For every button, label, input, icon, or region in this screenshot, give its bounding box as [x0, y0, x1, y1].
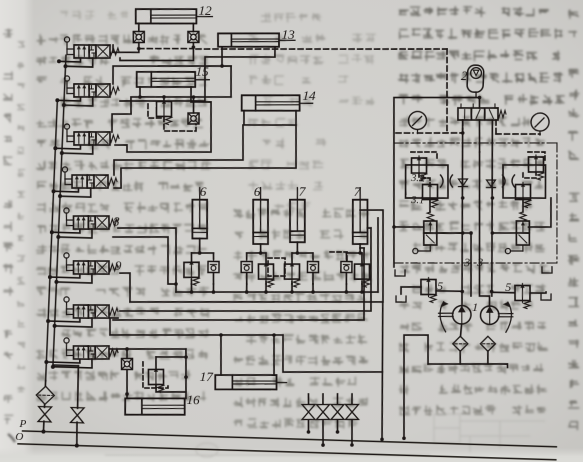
- filter: [36, 386, 55, 405]
- wire: [120, 221, 374, 319]
- relief valve (16): [148, 367, 165, 392]
- cylinder 16: [125, 397, 186, 417]
- shutoff valve: [70, 408, 84, 423]
- wire: [50, 273, 80, 278]
- wire: [487, 351, 488, 364]
- wire: [356, 209, 387, 302]
- shutoff valve: [38, 407, 52, 422]
- wire: [360, 247, 364, 249]
- filter 2: [480, 336, 496, 351]
- shutoff valve 3: [330, 404, 344, 420]
- wire: [112, 63, 231, 88]
- pump 1R: [480, 301, 514, 332]
- pilot line (dashed): [163, 117, 196, 132]
- wire: [193, 97, 194, 113]
- wire: [312, 253, 315, 259]
- wire: [322, 394, 325, 404]
- relief valve 3.2R: [528, 155, 545, 180]
- wire: [163, 97, 165, 102]
- wire: [221, 47, 223, 66]
- cylinder 15: [136, 70, 209, 89]
- wire: [156, 356, 186, 358]
- orifice R: [502, 175, 515, 188]
- wire: [351, 420, 353, 445]
- valve (accumulator charge): [457, 103, 506, 122]
- wire: [367, 227, 371, 229]
- pilot line (dashed): [495, 120, 496, 134]
- wire: [346, 252, 362, 255]
- relief valve 3.1R: [515, 182, 532, 207]
- wire: [375, 218, 381, 292]
- junction: [460, 290, 464, 294]
- wire: [120, 43, 275, 106]
- junction: [380, 437, 384, 441]
- svg-text:7: 7: [299, 184, 307, 199]
- wire: [345, 253, 348, 259]
- wire: [113, 42, 140, 53]
- relief valve 3.2: [411, 156, 428, 181]
- wire: [110, 330, 283, 340]
- wire: [120, 40, 194, 62]
- wire: [387, 95, 480, 269]
- cylinder 13: [217, 32, 295, 49]
- wire: [109, 318, 118, 335]
- wire: [59, 57, 81, 62]
- pilot line (dashed): [444, 49, 451, 133]
- pilot line (dashed): [411, 151, 438, 160]
- pilot line (dashed): [417, 132, 462, 135]
- wire: [291, 253, 294, 264]
- wire: [311, 272, 314, 284]
- wire: [212, 253, 215, 259]
- pilot check valve D: [121, 358, 133, 370]
- cylinder 6a: [191, 187, 209, 238]
- wire: [190, 253, 193, 262]
- wire: [190, 284, 193, 292]
- relief valve 6a: [183, 260, 200, 285]
- tank symbol: [396, 296, 406, 303]
- wire: [245, 284, 248, 292]
- wire: [57, 96, 80, 101]
- assembly border (chain line): [394, 138, 557, 148]
- wire: [54, 187, 79, 192]
- cylinder 7b: [351, 188, 370, 245]
- wire: [110, 347, 186, 351]
- cylinder 14 lower body: [243, 109, 296, 126]
- wire: [345, 272, 348, 284]
- cylinder 12: [135, 7, 213, 25]
- pilot line (dashed): [147, 104, 164, 118]
- svg-text:6: 6: [254, 184, 262, 199]
- pilot line (dashed): [419, 173, 431, 184]
- relief valve (15): [156, 99, 173, 124]
- check valve 6b: [241, 258, 253, 273]
- wire: [245, 273, 248, 285]
- wire: [48, 317, 80, 322]
- wire: [156, 385, 186, 393]
- wire: [176, 286, 378, 298]
- wire: [265, 284, 268, 292]
- P supply line: [23, 431, 557, 447]
- junction: [402, 436, 406, 440]
- svg-text:17: 17: [199, 369, 213, 384]
- svg-text:12: 12: [198, 3, 212, 18]
- check valve 7a: [307, 258, 319, 273]
- wire: [292, 252, 313, 253]
- wire: [113, 121, 244, 179]
- svg-text:P: P: [18, 418, 26, 430]
- wire: [345, 284, 348, 292]
- wire: [336, 394, 339, 404]
- wire: [437, 232, 463, 234]
- wire: [468, 233, 473, 296]
- cylinder 6b: [251, 187, 270, 244]
- wire: [199, 238, 200, 253]
- relief valve 6b: [258, 262, 275, 287]
- pilot line (dashed): [523, 173, 536, 179]
- relief valve 3.1: [422, 182, 439, 207]
- wire: [272, 335, 275, 375]
- svg-text:2: 2: [461, 69, 468, 83]
- wire: [337, 420, 338, 432]
- wire: [184, 349, 188, 398]
- wire: [192, 24, 195, 32]
- cylinder 17: [215, 373, 287, 391]
- valve V7: [63, 297, 118, 320]
- wire: [322, 420, 324, 445]
- suction manifold: [428, 362, 508, 368]
- O return line: [18, 444, 556, 460]
- wire: [361, 282, 363, 284]
- unloader valve L: [413, 212, 439, 255]
- valve V5 (8): [63, 208, 118, 231]
- filter 1: [452, 336, 468, 351]
- shutoff valve 4: [345, 404, 359, 420]
- wire: [436, 232, 471, 234]
- relief valve 5R: [514, 283, 531, 308]
- cylinder 7a: [288, 187, 307, 242]
- wire: [377, 302, 388, 439]
- wire: [308, 420, 309, 432]
- sub-circuit box: [502, 164, 547, 199]
- wire: [212, 284, 215, 292]
- pilot check valve B: [187, 31, 199, 43]
- wire: [281, 335, 383, 375]
- wire: [230, 66, 233, 97]
- wire: [291, 284, 294, 292]
- wire: [52, 228, 80, 233]
- cylinder 14: [241, 94, 313, 113]
- valve V2: [64, 76, 120, 99]
- wire: [119, 273, 131, 302]
- wire: [478, 120, 481, 152]
- relief valve 7a: [284, 262, 301, 287]
- bus line 1: [46, 101, 58, 381]
- wire: [155, 357, 156, 370]
- pilot line (dashed): [267, 258, 285, 277]
- wire: [400, 334, 430, 439]
- svg-text:O: O: [15, 431, 23, 443]
- wire: [126, 370, 128, 398]
- svg-text:3.1: 3.1: [410, 195, 425, 206]
- assembly border (chain line): [394, 258, 557, 268]
- wire: [115, 85, 214, 155]
- svg-text:13: 13: [281, 27, 295, 42]
- wire: [312, 284, 315, 292]
- orifice L: [440, 175, 453, 188]
- wire: [492, 291, 515, 294]
- relief valve 7b: [354, 262, 371, 287]
- wire: [126, 349, 129, 359]
- pilot line (dashed): [528, 151, 546, 160]
- wire: [529, 197, 553, 227]
- valve V6 (9): [63, 253, 118, 276]
- junction: [490, 290, 494, 294]
- wire: [130, 294, 383, 309]
- wire: [247, 252, 266, 253]
- wire: [361, 253, 364, 264]
- wire: [478, 98, 481, 109]
- wire: [455, 120, 470, 306]
- wire: [46, 358, 80, 363]
- wire: [359, 244, 362, 253]
- wire: [530, 292, 546, 294]
- wire: [114, 120, 298, 194]
- wire: [140, 94, 231, 99]
- wire: [55, 144, 80, 149]
- pilot check valve A: [133, 31, 145, 43]
- relief valve 5L: [420, 277, 437, 302]
- tank symbol: [542, 267, 553, 274]
- wire: [522, 198, 523, 212]
- svg-text:14: 14: [302, 88, 316, 103]
- check valve 6a: [208, 258, 220, 272]
- wire: [265, 253, 268, 264]
- tank symbol: [541, 294, 551, 301]
- pilot line (dashed): [330, 251, 348, 260]
- wire: [492, 232, 516, 233]
- check valve 7b: [340, 258, 352, 273]
- wire: [115, 226, 178, 292]
- shutoff valve 2: [316, 404, 330, 420]
- svg-text:3: 3: [463, 255, 471, 269]
- bus line 2: [53, 55, 66, 365]
- assembly border (chain line): [552, 143, 562, 263]
- wire: [53, 364, 78, 367]
- valve V3: [64, 124, 120, 147]
- wire: [219, 335, 222, 375]
- wire: [191, 252, 213, 253]
- valve V1: [64, 37, 120, 60]
- wire: [113, 241, 367, 328]
- sub-circuit box: [404, 164, 449, 199]
- pilot line (dashed): [139, 47, 194, 50]
- pilot line (dashed): [396, 132, 413, 133]
- check R: [486, 180, 496, 188]
- tank symbol: [395, 270, 405, 277]
- wire: [307, 394, 310, 404]
- unloader valve R: [505, 211, 531, 254]
- valve V8: [63, 338, 118, 361]
- pilot line (dashed): [196, 42, 447, 57]
- valve V4: [62, 167, 118, 190]
- wire: [296, 242, 299, 253]
- pilot check valve C: [188, 113, 200, 125]
- svg-text:7: 7: [354, 184, 362, 199]
- wire: [265, 282, 267, 284]
- wire: [291, 282, 293, 284]
- svg-text:6: 6: [200, 184, 208, 199]
- wire: [473, 152, 496, 306]
- wire: [436, 291, 462, 292]
- check L: [458, 179, 468, 187]
- svg-text:16: 16: [186, 392, 200, 407]
- wire: [245, 253, 247, 259]
- wire: [259, 244, 262, 253]
- wire: [394, 226, 424, 228]
- wire: [401, 286, 421, 294]
- wire: [138, 23, 141, 31]
- wire: [111, 235, 178, 284]
- pump 1L: [438, 302, 472, 333]
- accumulator 2: [467, 65, 484, 97]
- pressure gauge R: [531, 113, 550, 136]
- wire: [212, 273, 215, 285]
- wire: [77, 366, 80, 408]
- pilot line (dashed): [496, 133, 540, 136]
- pilot line (dashed): [142, 362, 169, 389]
- svg-text:3: 3: [476, 255, 484, 269]
- pressure gauge L: [408, 111, 427, 134]
- wire: [44, 381, 46, 386]
- wire: [190, 280, 192, 284]
- wire: [429, 198, 430, 212]
- wire: [461, 324, 462, 336]
- shutoff valve 1: [301, 404, 315, 420]
- svg-text:1: 1: [472, 300, 479, 314]
- wire: [460, 351, 461, 364]
- wire: [351, 394, 354, 404]
- wire: [485, 120, 499, 296]
- wire: [361, 284, 364, 292]
- wire: [111, 86, 140, 133]
- pilot line (dashed): [462, 120, 463, 133]
